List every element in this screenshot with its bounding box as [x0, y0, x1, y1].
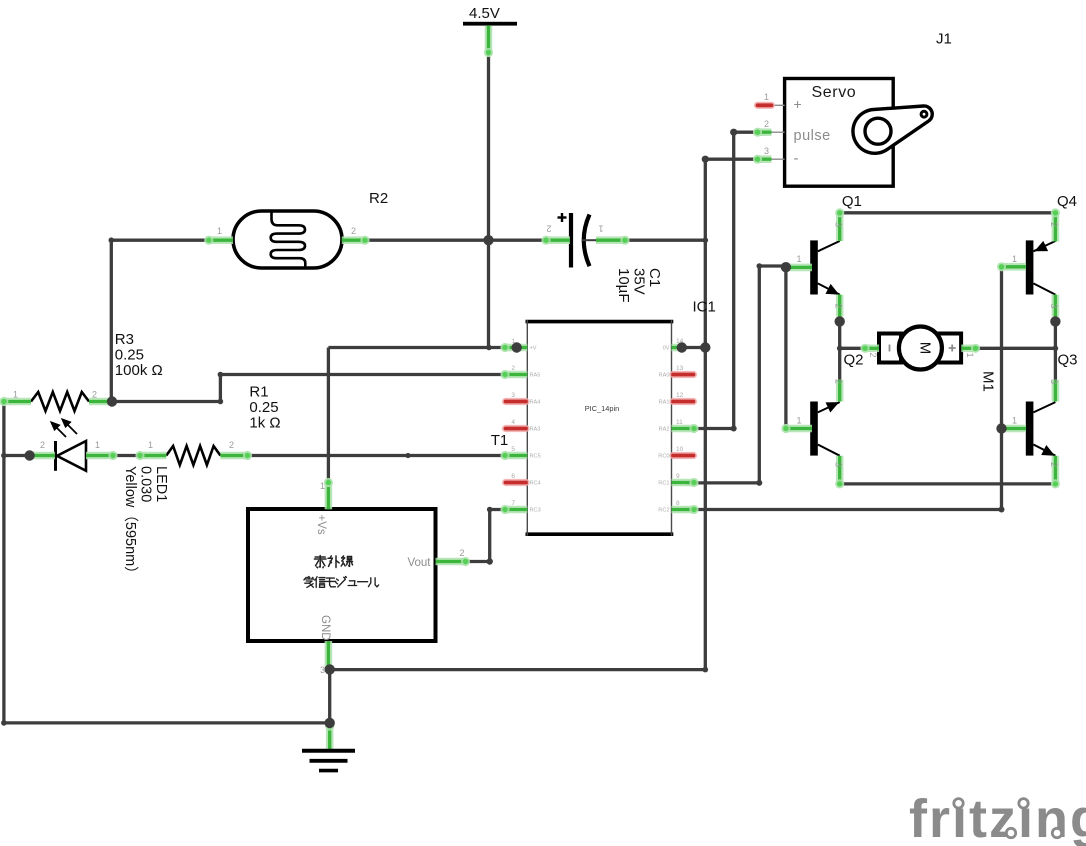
LED emission arrows: [52, 420, 78, 438]
wire module +Vs to IC pin1: [328, 346, 507, 349]
svg-text:2: 2: [834, 379, 844, 384]
transistor Q2: [810, 402, 840, 456]
bendpoint: [757, 263, 763, 269]
ground pin stub: [325, 721, 334, 749]
svg-text:+: +: [794, 96, 802, 112]
pin 2 of R1: [220, 451, 252, 460]
svg-text:0.25: 0.25: [115, 347, 144, 364]
junction: [24, 450, 34, 460]
svg-text:R1: R1: [249, 384, 268, 401]
svg-text:2: 2: [1049, 462, 1059, 467]
transistor Q3: [1026, 402, 1056, 456]
bendpoint: [218, 399, 224, 405]
servo pin connectors: [771, 105, 785, 159]
svg-text:Vout: Vout: [407, 557, 431, 569]
svg-text:2: 2: [546, 224, 551, 234]
pin 2 of Q4: [1051, 208, 1060, 241]
svg-text:8: 8: [676, 500, 680, 507]
pin 2 of R2: [342, 236, 370, 245]
svg-text:5: 5: [511, 446, 515, 453]
bendpoint: [1, 720, 7, 726]
svg-text:Q3: Q3: [1058, 352, 1078, 369]
svg-text:2: 2: [764, 119, 769, 129]
svg-text:RC5: RC5: [530, 454, 541, 460]
resistor R3: [31, 392, 89, 411]
svg-text:1: 1: [13, 390, 18, 400]
wire top rail Q1-Q4: [840, 211, 1056, 214]
photoresistor R2: [233, 211, 342, 268]
svg-text:Servo: Servo: [812, 84, 857, 101]
wire IC pin8 run: [686, 508, 1002, 511]
svg-text:0V: 0V: [663, 346, 670, 352]
svg-text:T1: T1: [491, 432, 509, 449]
svg-text:M: M: [916, 342, 933, 355]
pin 9 of IC1: [672, 478, 699, 487]
pin 2 of servo: [753, 128, 772, 137]
bendpoint: [486, 345, 492, 351]
wire module GND to ground node: [328, 669, 331, 727]
wire to servo pin2: [734, 131, 758, 134]
svg-text:RA3: RA3: [530, 427, 541, 433]
svg-text:0.030: 0.030: [138, 466, 154, 502]
pin 13 of IC1 (unconnected): [673, 371, 694, 378]
junction: [835, 316, 845, 326]
svg-text:2: 2: [351, 226, 356, 236]
junction: [781, 262, 791, 272]
svg-text:Q2: Q2: [844, 352, 864, 369]
resistor R1: [166, 446, 220, 465]
svg-text:RC3: RC3: [530, 508, 541, 514]
pin 10 of IC1 (unconnected): [673, 452, 694, 459]
pin 2 of C1: [541, 236, 570, 245]
svg-text:11: 11: [676, 419, 683, 426]
svg-text:LED1: LED1: [153, 466, 169, 502]
pin 1 of servo (unconnected): [758, 102, 772, 109]
junction: [483, 235, 493, 245]
pin 3 of Q3: [1052, 380, 1060, 402]
pin 2 of LED1: [30, 452, 55, 460]
bendpoint: [731, 426, 737, 432]
svg-text:RA2: RA2: [659, 427, 670, 433]
svg-text:3: 3: [511, 392, 515, 399]
wire R3 junction to bend: [112, 400, 220, 403]
junction: [325, 718, 335, 728]
junction: [700, 342, 710, 352]
wire bend up: [219, 375, 222, 402]
svg-text:+Vs: +Vs: [315, 515, 327, 535]
svg-text:RC1: RC1: [658, 481, 669, 487]
svg-text:1: 1: [764, 92, 769, 102]
pin 12 of IC1 (unconnected): [673, 398, 694, 405]
servo J1 box: [785, 79, 894, 187]
wire left edge vertical: [2, 402, 5, 723]
svg-text:2: 2: [229, 440, 234, 450]
svg-text:3: 3: [320, 665, 325, 675]
motor M1: [879, 334, 901, 363]
module label 受信モジュール: [304, 577, 314, 588]
wire to IC pin2: [220, 373, 507, 376]
svg-text:1: 1: [598, 224, 603, 234]
wire R1 pin2 to IC pin5: [248, 454, 508, 457]
wire to Q1 base junction: [759, 264, 786, 267]
svg-text:IC1: IC1: [693, 299, 716, 316]
wire IC pin14 to net: [682, 346, 706, 349]
bendpoint: [218, 372, 224, 378]
wire junction to IC pin1 row: [487, 240, 490, 347]
svg-text:3: 3: [834, 462, 844, 467]
svg-text:4.5V: 4.5V: [469, 5, 500, 22]
wire left column mid: [838, 316, 841, 380]
junction: [512, 342, 522, 352]
pin 1 of R1: [135, 451, 166, 460]
svg-text:PIC_14pin: PIC_14pin: [585, 404, 620, 413]
wire Vout up: [488, 510, 491, 562]
pin 14 of IC1: [672, 344, 683, 352]
wire Q1 base junction down to Q2 base: [784, 267, 787, 428]
pin 6 of IC1 (unconnected): [506, 479, 527, 486]
bendpoint: [756, 480, 762, 486]
svg-text:1: 1: [148, 440, 153, 450]
pin 1 (base) of Q3: [1003, 425, 1026, 433]
pin 3 of servo: [753, 155, 772, 164]
wire 4.5V rail down to junction: [487, 25, 490, 240]
pin 1 of R3: [0, 397, 31, 406]
fritzing watermark: [909, 789, 1086, 846]
pin 2 of Q3: [1051, 456, 1060, 489]
svg-text:1: 1: [217, 226, 222, 236]
wire module Vout: [466, 560, 490, 563]
pin 1 of LED1: [86, 451, 118, 460]
capacitor C1: [569, 213, 573, 268]
pin 3 of Q2: [835, 456, 844, 489]
svg-text:2: 2: [511, 365, 515, 372]
junction: [325, 664, 335, 674]
svg-text:RA0: RA0: [659, 373, 670, 379]
wire bottom run to ground junction: [4, 721, 330, 724]
svg-text:12: 12: [676, 392, 684, 399]
pin 5 of IC1: [500, 451, 527, 460]
bendpoint: [487, 507, 493, 513]
svg-text:2: 2: [92, 390, 97, 400]
pin 1 of R2: [204, 236, 233, 245]
wire GND horizontal run: [330, 668, 706, 671]
wire to servo pin3: [705, 158, 757, 161]
svg-text:Q4: Q4: [1057, 193, 1077, 210]
IR receiver module (T1) box: [248, 509, 436, 641]
wire right column mid: [1054, 316, 1057, 380]
svg-text:3: 3: [834, 222, 844, 227]
pin 1 of M1: [961, 344, 980, 353]
pin 7 of IC1: [500, 505, 527, 514]
pin 3 of IC1 (unconnected): [506, 398, 527, 405]
pin 3 (GND) of module: [325, 641, 333, 667]
wire pin9 vertical: [758, 266, 761, 483]
pin 2 (Vout) of module: [436, 557, 471, 566]
bendpoint: [405, 453, 410, 458]
pin 2 of Q1: [836, 295, 844, 317]
bendpoint: [999, 507, 1005, 513]
bendpoint: [487, 558, 493, 564]
svg-text:1: 1: [320, 481, 325, 491]
svg-text:2: 2: [868, 353, 878, 358]
wire to LED junction: [4, 454, 30, 457]
bendpoint: [702, 156, 709, 163]
wire Q3 base junction up to Q4 base: [1000, 267, 1003, 429]
svg-text:M1: M1: [980, 371, 997, 392]
module label 赤外線: [314, 556, 326, 568]
wire bottom rail Q2-Q3: [840, 482, 1056, 485]
pin 11 of IC1: [672, 424, 699, 433]
bendpoint: [1, 453, 7, 459]
wire IC pin11 to pulse bend: [686, 427, 734, 430]
junction: [107, 396, 117, 406]
pin stub of 4.5V symbol: [484, 26, 493, 58]
pin 1 (+Vs) of module: [324, 478, 333, 509]
svg-text:3: 3: [1049, 304, 1059, 309]
svg-text:2: 2: [1049, 222, 1059, 227]
pin 2 of IC1: [500, 370, 527, 379]
svg-text:C1: C1: [646, 268, 663, 287]
svg-text:1: 1: [1012, 416, 1017, 426]
svg-text:pulse: pulse: [794, 128, 831, 144]
svg-text:RA1: RA1: [659, 400, 670, 406]
transistor Q1: [810, 240, 840, 294]
svg-text:13: 13: [676, 365, 684, 372]
svg-text:1: 1: [1012, 254, 1017, 264]
svg-text:3: 3: [764, 146, 769, 156]
svg-text:2: 2: [40, 440, 45, 450]
LED LED1: [54, 441, 57, 471]
servo horn icon: [853, 106, 932, 153]
pin 4 of IC1 (unconnected): [506, 425, 527, 432]
svg-text:R2: R2: [369, 190, 388, 207]
wire to motor pin2: [840, 347, 866, 350]
svg-text:1k Ω: 1k Ω: [249, 415, 280, 432]
svg-text:RC0: RC0: [658, 454, 669, 460]
wire to IC pin7: [490, 508, 507, 511]
wire bend down to R3 junction: [110, 240, 113, 401]
svg-text:1: 1: [965, 353, 975, 358]
pin 1 (base) of Q1: [787, 264, 812, 272]
bendpoint: [703, 667, 709, 673]
pin 3 of Q4: [1052, 295, 1060, 317]
svg-text:RC2: RC2: [658, 508, 669, 514]
wire motor pin1 to right column: [975, 347, 1055, 350]
svg-text:1: 1: [95, 440, 100, 450]
junction: [677, 342, 687, 352]
pin 1 of IC1: [500, 343, 527, 352]
svg-text:0.25: 0.25: [249, 399, 278, 416]
wire vertical net servo minus / C1 / IC pin14 / GND: [704, 159, 707, 669]
svg-text:R3: R3: [115, 331, 134, 348]
pin 2 of Q2: [836, 380, 844, 402]
op-amp / IC U1 : PIC_14pin box: [527, 322, 671, 535]
svg-text:1: 1: [797, 416, 802, 426]
svg-text:Yellow（595nm）: Yellow（595nm）: [122, 466, 139, 581]
svg-text:7: 7: [511, 500, 515, 507]
svg-text:2: 2: [834, 304, 844, 309]
svg-text:+V: +V: [530, 346, 537, 352]
pin 1 of C1: [596, 236, 630, 245]
wire C1 pin1 to vertical net: [625, 239, 705, 242]
bendpoint: [1053, 346, 1059, 352]
svg-text:RA4: RA4: [530, 400, 541, 406]
svg-text:GND: GND: [319, 615, 331, 641]
pin 2 of M1: [860, 344, 879, 353]
junction: [1050, 316, 1060, 326]
wire IC pin9 run: [686, 481, 759, 484]
svg-text:RC4: RC4: [530, 481, 541, 487]
svg-text:2: 2: [459, 548, 464, 558]
bendpoint: [837, 346, 843, 352]
wire down to module +Vs pin: [327, 348, 330, 485]
svg-text:J1: J1: [936, 31, 952, 48]
svg-text:3: 3: [1049, 379, 1059, 384]
wire R2 pin2 to C1: [365, 239, 548, 242]
transistor Q4: [1026, 240, 1056, 294]
bendpoint: [730, 129, 737, 136]
svg-text:6: 6: [511, 473, 515, 480]
svg-text:1: 1: [797, 254, 802, 264]
svg-text:4: 4: [511, 419, 515, 426]
wire servo pulse vertical: [732, 132, 735, 428]
bendpoint: [703, 237, 709, 243]
svg-text:10µF: 10µF: [615, 268, 632, 303]
svg-text:-: -: [794, 150, 799, 167]
wire pin8 up to Q3 base junction: [1000, 429, 1003, 510]
junction: [996, 423, 1006, 433]
pin 2 of R3: [89, 398, 110, 406]
svg-text:100k Ω: 100k Ω: [115, 362, 163, 379]
bendpoint: [109, 237, 115, 243]
wire R2 pin1 to bend: [111, 239, 209, 242]
pin 1 (base) of Q2: [781, 424, 812, 433]
pin 8 of IC1: [672, 505, 699, 514]
svg-text:Q1: Q1: [842, 193, 862, 210]
pin 3 of Q1: [835, 208, 844, 241]
svg-text:10: 10: [676, 446, 684, 453]
svg-text:35V: 35V: [631, 268, 648, 295]
wire LED pin1 to R1 pin1: [113, 454, 141, 457]
svg-text:RA5: RA5: [530, 373, 541, 379]
svg-text:9: 9: [676, 473, 680, 480]
pin 1 (base) of Q4: [997, 262, 1026, 271]
